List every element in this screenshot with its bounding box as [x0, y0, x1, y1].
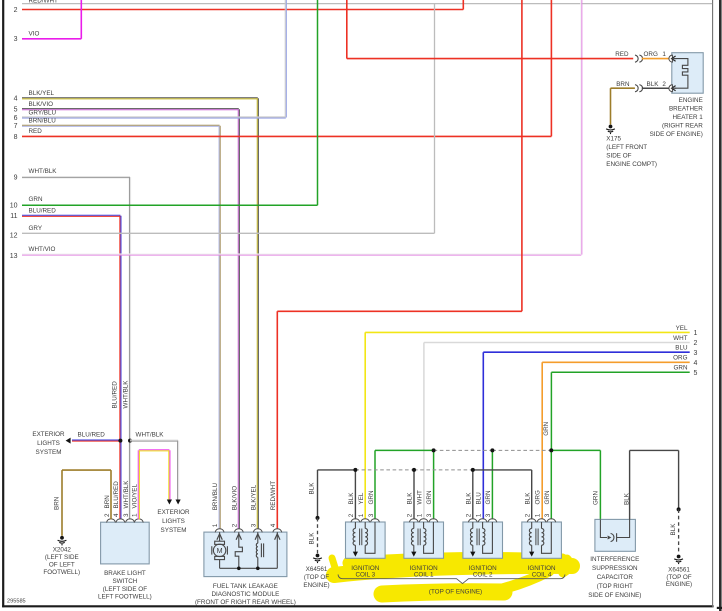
svg-text:4: 4 — [694, 360, 698, 367]
ORG vertical down to ignition coil 4 pin 1 — [541, 362, 543, 519]
svg-text:ENGINE): ENGINE) — [666, 581, 692, 588]
svg-text:X64561: X64561 — [668, 567, 690, 574]
svg-text:(LEFT SIDE OF: (LEFT SIDE OF — [103, 586, 147, 593]
svg-text:4: 4 — [14, 96, 18, 103]
WHT vertical down to ignition coil 1 pin 1 — [423, 343, 425, 520]
ground X64561 right — [674, 555, 683, 565]
highlighter strokes — [332, 558, 572, 594]
svg-text:YEL: YEL — [676, 325, 688, 332]
black bus solid segment coil2-coil4 — [473, 469, 532, 471]
wire WHT horizontal (right side) — [424, 342, 690, 344]
svg-text:BLU/RED: BLU/RED — [29, 207, 57, 214]
svg-text:(TOP OF: (TOP OF — [666, 574, 691, 581]
ignition coil 1 pin 1 socket — [419, 519, 428, 523]
RED/WHT feed vertical from top edge — [521, 0, 523, 311]
module pin 2 internal arrow — [238, 532, 240, 541]
svg-text:1: 1 — [662, 51, 666, 58]
junction dot on BLK drop — [316, 516, 320, 520]
black bus dashed segment coil1-coil2 — [414, 469, 473, 471]
svg-text:GRN: GRN — [485, 490, 492, 504]
wire 4 BLK/YEL horizontal — [22, 97, 258, 99]
page frame bottom border — [2, 605, 714, 607]
junction dot on rail pin 3 — [256, 567, 260, 571]
svg-text:3: 3 — [544, 513, 551, 517]
svg-text:BREATHER: BREATHER — [669, 106, 703, 113]
wire 8 RED vertical to top edge — [550, 0, 552, 136]
inline connector pin 1 — [635, 55, 638, 62]
green bus solid segment coil3 to coil1 — [375, 449, 434, 451]
GRN vertical down to interference suppression capacitor — [599, 450, 601, 519]
black drop to ignition coil 4 pin 2 — [531, 470, 533, 519]
wire 3 VIO horizontal — [22, 38, 81, 40]
capacitor arrow marker — [608, 536, 612, 540]
junction dot on right BLK drop — [677, 507, 681, 511]
wire 8 RED horizontal — [22, 135, 551, 137]
fuel tank leakage diagnostic module box — [204, 532, 287, 577]
green bus dashed segment coil2-coil4 — [492, 449, 551, 451]
svg-text:GRN: GRN — [368, 490, 375, 504]
svg-text:COIL 4: COIL 4 — [532, 572, 552, 579]
svg-text:(RIGHT REAR: (RIGHT REAR — [662, 122, 703, 129]
green bus solid segment coil4 to capacitor — [551, 449, 600, 451]
svg-text:1: 1 — [534, 513, 541, 517]
svg-text:GRN: GRN — [426, 490, 433, 504]
ignition coil 2 transformer primary — [470, 522, 472, 552]
svg-text:(TOP RIGHT: (TOP RIGHT — [597, 583, 633, 590]
engine breather heater 1 box — [672, 53, 703, 93]
adjacent page left border — [719, 0, 722, 611]
BLK wire down toward X64561 (right) — [678, 450, 680, 509]
svg-text:WHT/BLK: WHT/BLK — [29, 168, 58, 175]
svg-text:2: 2 — [104, 513, 111, 517]
svg-text:ORG: ORG — [673, 355, 687, 362]
svg-text:BLU: BLU — [675, 345, 688, 352]
svg-text:BLU: BLU — [475, 492, 482, 505]
wire 12 GRY vertical up to wire 1 — [434, 4, 436, 234]
ignition coil 4 transformer secondary — [542, 522, 552, 553]
svg-text:ORG: ORG — [644, 51, 658, 58]
svg-text:12: 12 — [10, 233, 18, 240]
green bus junction dot at coil 4 — [549, 448, 553, 452]
ignition coil 1 box — [404, 522, 444, 558]
svg-text:13: 13 — [10, 253, 18, 260]
svg-text:(LEFT SIDE: (LEFT SIDE — [45, 554, 79, 561]
ground X175 — [606, 125, 615, 135]
svg-text:X64561: X64561 — [306, 566, 328, 573]
svg-text:LIGHTS: LIGHTS — [37, 440, 60, 447]
svg-text:RED: RED — [29, 128, 43, 135]
svg-text:3: 3 — [123, 513, 130, 517]
RED/WHT feed horizontal — [277, 310, 522, 312]
svg-text:VIO: VIO — [29, 31, 40, 38]
svg-text:OF LEFT: OF LEFT — [49, 562, 75, 569]
BRN wire horizontal — [62, 469, 111, 471]
svg-text:RED/WHT: RED/WHT — [270, 481, 277, 511]
brake light switch box — [101, 522, 150, 564]
module pin 3 internal arrow — [257, 532, 259, 541]
YEL vertical down to ignition coil 3 pin 1 — [364, 332, 366, 519]
ignition coil 1 transformer primary — [411, 522, 413, 552]
brake light switch pin socket — [126, 519, 135, 523]
ignition coil 3 pin 1 socket — [361, 519, 370, 523]
wire 6 GRY/BLU horizontal — [22, 116, 286, 118]
svg-text:1: 1 — [475, 513, 482, 517]
green bus junction dot at coil 2 — [490, 448, 494, 452]
BRN wire to heater pin 2 — [611, 87, 635, 89]
BLU vertical down to ignition coil 2 pin 1 — [482, 352, 484, 519]
ignition coil 3 pin 3 socket — [371, 519, 380, 523]
svg-text:BRN/BLU: BRN/BLU — [212, 483, 219, 511]
brake light switch pin socket — [116, 519, 125, 523]
svg-text:BLK: BLK — [308, 482, 315, 495]
svg-text:1: 1 — [212, 523, 219, 527]
svg-text:ENGINE: ENGINE — [679, 97, 703, 104]
svg-text:1: 1 — [416, 513, 423, 517]
brake light switch pin socket — [134, 519, 143, 523]
ignition coil 2 pin 1 socket — [478, 519, 487, 523]
svg-text:ORG: ORG — [534, 490, 541, 504]
svg-text:BLK: BLK — [670, 523, 677, 536]
svg-text:2: 2 — [662, 81, 666, 88]
svg-text:7: 7 — [14, 123, 18, 130]
black bus junction dot coil 2 — [471, 468, 475, 472]
ground X2042 — [58, 536, 67, 546]
svg-text:BLK: BLK — [308, 532, 315, 545]
page frame left border — [2, 0, 4, 607]
svg-text:SYSTEM: SYSTEM — [36, 449, 62, 456]
module pin 4 lead — [276, 541, 278, 568]
BLK wire to heater pin 2 — [642, 87, 669, 89]
svg-text:BLU/RED: BLU/RED — [113, 481, 120, 509]
BLK dashed wire to ground (right) — [678, 509, 680, 554]
svg-text:SIDE OF: SIDE OF — [606, 152, 631, 159]
BLK wire from capacitor up — [629, 450, 631, 519]
svg-text:BLK/YEL: BLK/YEL — [29, 90, 55, 97]
svg-text:9: 9 — [14, 175, 18, 182]
svg-text:BRN: BRN — [54, 496, 61, 510]
BLK wire corner down toward X64561 (left) — [317, 470, 319, 518]
svg-text:6: 6 — [14, 115, 18, 122]
svg-text:YEL: YEL — [358, 492, 365, 504]
black bus solid segment from X64561 corner — [318, 469, 356, 471]
svg-text:(FRONT OF RIGHT REAR WHEEL): (FRONT OF RIGHT REAR WHEEL) — [195, 599, 296, 606]
svg-text:BLK/VIO: BLK/VIO — [29, 101, 54, 108]
green drop to ignition coil 4 pin 3 — [550, 450, 552, 519]
svg-text:GRN: GRN — [593, 491, 600, 505]
svg-text:3: 3 — [250, 523, 257, 527]
wire 13 WHT/VIO horizontal — [22, 253, 581, 255]
svg-text:LIGHTS: LIGHTS — [162, 518, 185, 525]
svg-text:COIL 1: COIL 1 — [414, 572, 434, 579]
svg-text:2: 2 — [231, 523, 238, 527]
ignition coil 3 core — [359, 529, 361, 546]
ignition coil 2 spark output arrow — [470, 552, 475, 557]
svg-text:FUEL TANK LEAKAGE: FUEL TANK LEAKAGE — [213, 583, 278, 590]
module pin 2 element (square meander) — [235, 541, 242, 568]
wire YEL horizontal (right side) — [365, 331, 690, 333]
svg-text:GRY/BLU: GRY/BLU — [29, 109, 57, 116]
svg-text:CAPACITOR: CAPACITOR — [597, 574, 634, 581]
svg-text:BRAKE LIGHT: BRAKE LIGHT — [104, 570, 146, 577]
BRN wire down to brake light switch pin 2 — [110, 470, 112, 519]
ignition coil 1 core — [417, 529, 419, 546]
black bus junction dot coil 1 — [412, 468, 416, 472]
svg-text:SIDE OF ENGINE): SIDE OF ENGINE) — [650, 131, 703, 138]
svg-text:RED: RED — [615, 51, 629, 58]
wire 4 BLK/YEL vertical down to module pin 3 — [256, 98, 258, 529]
svg-text:SWITCH: SWITCH — [112, 578, 137, 585]
svg-text:3: 3 — [694, 350, 698, 357]
svg-text:COIL 2: COIL 2 — [473, 572, 493, 579]
svg-text:X2042: X2042 — [53, 547, 72, 554]
wire 11 BLU/RED horizontal — [22, 214, 120, 216]
svg-text:4: 4 — [270, 523, 277, 527]
svg-text:5: 5 — [694, 370, 698, 377]
svg-text:8: 8 — [14, 134, 18, 141]
ignition coil 3 transformer primary — [353, 522, 355, 552]
svg-text:(TOP OF: (TOP OF — [304, 574, 329, 581]
page frame right border — [712, 0, 714, 607]
ignition coil 2 pin 3 socket — [488, 519, 497, 523]
ignition coil 3 box — [346, 522, 386, 558]
junction dot WHT/BLK — [128, 439, 132, 443]
svg-text:BLU/RED: BLU/RED — [78, 432, 106, 439]
ignition coil 2 core — [476, 529, 478, 546]
inline connector pin 2 — [635, 85, 638, 92]
RED feed wire vertical from top edge — [346, 0, 348, 59]
svg-text:COIL 3: COIL 3 — [355, 572, 375, 579]
svg-text:GRN: GRN — [674, 365, 688, 372]
BLK dashed wire to ground — [317, 518, 319, 553]
VIO/YEL branch horizontal — [139, 449, 170, 451]
wire 7 BRN/BLU horizontal — [22, 124, 220, 126]
svg-text:3: 3 — [426, 513, 433, 517]
ignition coil 1 transformer secondary — [424, 522, 434, 553]
svg-text:GRY: GRY — [29, 225, 43, 232]
BRN wire down to ground X175 — [610, 88, 612, 124]
svg-text:LEFT FOOTWELL): LEFT FOOTWELL) — [98, 594, 152, 601]
wire 13 WHT/VIO vertical to top edge — [580, 0, 582, 255]
ignition coil 4 pin 3 socket — [547, 519, 556, 523]
black bus dashed segment coil3-coil1 — [355, 469, 414, 471]
heater element — [675, 59, 688, 89]
svg-text:WHT/BLK: WHT/BLK — [123, 480, 130, 509]
svg-text:RED/WHT: RED/WHT — [29, 0, 59, 5]
green bus junction dot at coil 1 — [432, 448, 436, 452]
module motor M — [212, 541, 228, 559]
svg-text:FOOTWELL): FOOTWELL) — [43, 569, 80, 576]
svg-text:GRN: GRN — [543, 421, 550, 435]
svg-text:1: 1 — [358, 513, 365, 517]
svg-text:WHT/VIO: WHT/VIO — [29, 246, 56, 253]
WHT/BLK branch vertical — [177, 441, 179, 500]
RED/WHT vertical down to module pin 4 — [276, 311, 278, 529]
ignition coil 4 spark output arrow — [529, 552, 534, 557]
black drop to ignition coil 2 pin 2 — [472, 470, 474, 519]
heater pin 1 box connector — [669, 55, 672, 62]
ignition coil 4 core — [535, 529, 537, 546]
wire 2 RED/WHT vertical to top edge — [462, 0, 464, 10]
svg-text:4: 4 — [113, 513, 120, 517]
wire 2 RED/WHT horizontal — [22, 9, 463, 11]
wire 12 GRY horizontal — [22, 232, 435, 234]
VIO/YEL wire from brake light switch pin 1 — [137, 450, 139, 519]
ignition coil 4 pin 1 socket — [537, 519, 546, 523]
svg-text:BLK: BLK — [466, 492, 473, 505]
svg-text:10: 10 — [10, 203, 18, 210]
svg-text:BLK/VIO: BLK/VIO — [231, 486, 238, 511]
svg-text:2: 2 — [348, 513, 355, 517]
module pin 3 inductor — [256, 541, 263, 568]
module pin 1 socket — [215, 529, 224, 533]
junction dot BLU/RED — [118, 439, 122, 443]
svg-text:WHT/BLK: WHT/BLK — [122, 380, 129, 409]
svg-text:3: 3 — [485, 513, 492, 517]
module pin 1 internal arrow — [219, 532, 221, 541]
wire 3 VIO vertical to top edge — [80, 0, 82, 39]
junction dot on rail pin 2 — [237, 567, 241, 571]
wire 9 WHT/BLK vertical down to brake light switch pin 3 — [128, 177, 130, 519]
svg-text:2: 2 — [694, 340, 698, 347]
svg-text:295585: 295585 — [7, 599, 26, 605]
svg-text:BLK: BLK — [407, 492, 414, 505]
ignition coil 4 transformer primary — [529, 522, 531, 552]
ignition coil 2 box — [463, 522, 503, 558]
wire 1 GRY horizontal at top — [22, 3, 712, 5]
svg-text:1: 1 — [132, 513, 139, 517]
black drop to ignition coil 3 pin 2 — [354, 470, 356, 519]
interference suppression capacitor box — [595, 519, 636, 551]
green bus riser from ignition coil 3 pin 3 — [374, 450, 376, 519]
ignition coil 2 pin 2 socket — [468, 519, 477, 523]
BLU/RED branch to exterior lights system — [72, 439, 120, 441]
svg-text:WHT: WHT — [673, 335, 687, 342]
module motor lead to rail — [219, 560, 221, 569]
svg-text:BLK: BLK — [647, 81, 660, 88]
svg-text:2: 2 — [525, 513, 532, 517]
svg-text:(LEFT FRONT: (LEFT FRONT — [606, 144, 647, 151]
module pin 4 socket — [273, 529, 282, 533]
ignition coil 1 spark output arrow — [411, 552, 416, 557]
ignition coil 1 pin 3 socket — [429, 519, 438, 523]
green drop to ignition coil 2 pin 3 — [491, 450, 493, 519]
svg-text:SIDE OF ENGINE): SIDE OF ENGINE) — [588, 592, 641, 599]
svg-text:GRN: GRN — [544, 490, 551, 504]
RED feed wire horizontal to engine breather heater — [347, 58, 633, 60]
svg-text:HEATER 1: HEATER 1 — [672, 114, 703, 121]
svg-text:3: 3 — [368, 513, 375, 517]
svg-text:1: 1 — [694, 330, 698, 337]
wire 7 BRN/BLU vertical down to module pin 1 — [218, 126, 220, 529]
wire 11 BLU/RED vertical down to brake light switch pin 4 — [119, 216, 121, 520]
svg-text:X175: X175 — [606, 135, 621, 142]
black bus junction dot coil 3 — [353, 468, 357, 472]
heater pin 2 box connector — [669, 85, 672, 92]
wire 5 BLK/VIO horizontal — [22, 108, 239, 110]
svg-text:2: 2 — [407, 513, 414, 517]
black drop to ignition coil 1 pin 2 — [413, 470, 415, 519]
green bus dashed segment coil1-coil2 — [434, 449, 493, 451]
svg-text:2: 2 — [14, 7, 18, 14]
module pin 2 socket — [234, 529, 243, 533]
svg-text:WHT: WHT — [416, 490, 423, 504]
ignition coil 3 transformer secondary — [365, 522, 375, 553]
wire BLU horizontal (right side) — [483, 351, 689, 353]
svg-text:BLK: BLK — [348, 492, 355, 505]
svg-text:EXTERIOR: EXTERIOR — [32, 431, 65, 438]
svg-text:BLK/YEL: BLK/YEL — [250, 484, 257, 510]
ignition coil 4 box — [522, 522, 562, 558]
svg-text:DIAGNOSTIC MODULE: DIAGNOSTIC MODULE — [211, 591, 279, 598]
module pin 4 internal arrow — [276, 532, 278, 541]
capacitor internal wiring — [600, 519, 629, 541]
svg-text:3: 3 — [14, 36, 18, 43]
svg-text:BRN: BRN — [616, 81, 630, 88]
wire 9 WHT/BLK horizontal — [22, 176, 130, 178]
wire 10 GRN horizontal — [22, 204, 318, 206]
wire 10 GRN vertical to top edge — [317, 0, 319, 205]
svg-text:SYSTEM: SYSTEM — [161, 527, 187, 534]
svg-text:(TOP OF ENGINE): (TOP OF ENGINE) — [429, 589, 482, 596]
ignition coil 2 transformer secondary — [483, 522, 493, 553]
svg-text:VIO/YEL: VIO/YEL — [132, 484, 139, 509]
svg-text:BRN/BLU: BRN/BLU — [29, 118, 57, 125]
ignition coil 3 spark output arrow — [353, 552, 358, 557]
ignition coil 3 pin 2 socket — [351, 519, 360, 523]
brace under ignition coils — [338, 575, 565, 584]
module pin 3 socket — [253, 529, 262, 533]
ignition coil 4 pin 2 socket — [527, 519, 536, 523]
svg-text:M: M — [217, 546, 223, 555]
BLK wire horizontal to right — [630, 449, 679, 451]
svg-text:5: 5 — [14, 107, 18, 114]
wire 6 GRY/BLU vertical to top edge — [284, 0, 286, 118]
brake light switch pin socket — [107, 519, 116, 523]
ground X64561 left — [313, 554, 322, 564]
ORG wire to heater pin 1 — [642, 58, 669, 60]
svg-text:11: 11 — [10, 213, 17, 220]
ignition coil 1 pin 2 socket — [409, 519, 418, 523]
svg-text:INTERFERENCE: INTERFERENCE — [590, 556, 639, 563]
svg-text:EXTERIOR: EXTERIOR — [157, 509, 190, 516]
svg-text:ENGINE COMPT): ENGINE COMPT) — [606, 161, 657, 168]
svg-text:BRN: BRN — [104, 495, 111, 509]
svg-text:BLK: BLK — [525, 492, 532, 505]
green drop to ignition coil 1 pin 3 — [433, 450, 435, 519]
VIO/YEL branch vertical — [168, 450, 170, 499]
GRN vertical down to green bus junction — [550, 372, 552, 450]
svg-text:ENGINE): ENGINE) — [303, 582, 329, 589]
module bottom rail — [220, 567, 278, 569]
wire 5 BLK/VIO vertical down to module pin 2 — [237, 109, 239, 529]
svg-text:2: 2 — [466, 513, 473, 517]
wire ORG horizontal (right side) — [542, 361, 690, 363]
BRN wire vertical from ground X2042 — [61, 470, 63, 536]
adjacent page bottom border fragment — [717, 607, 722, 609]
WHT/BLK branch horizontal — [130, 439, 178, 441]
wire GRN horizontal (right side) — [551, 371, 689, 373]
svg-text:SUPPRESSION: SUPPRESSION — [592, 565, 638, 572]
svg-text:GRN: GRN — [29, 196, 43, 203]
svg-text:WHT/BLK: WHT/BLK — [136, 432, 165, 439]
svg-text:BLU/RED: BLU/RED — [112, 381, 119, 409]
